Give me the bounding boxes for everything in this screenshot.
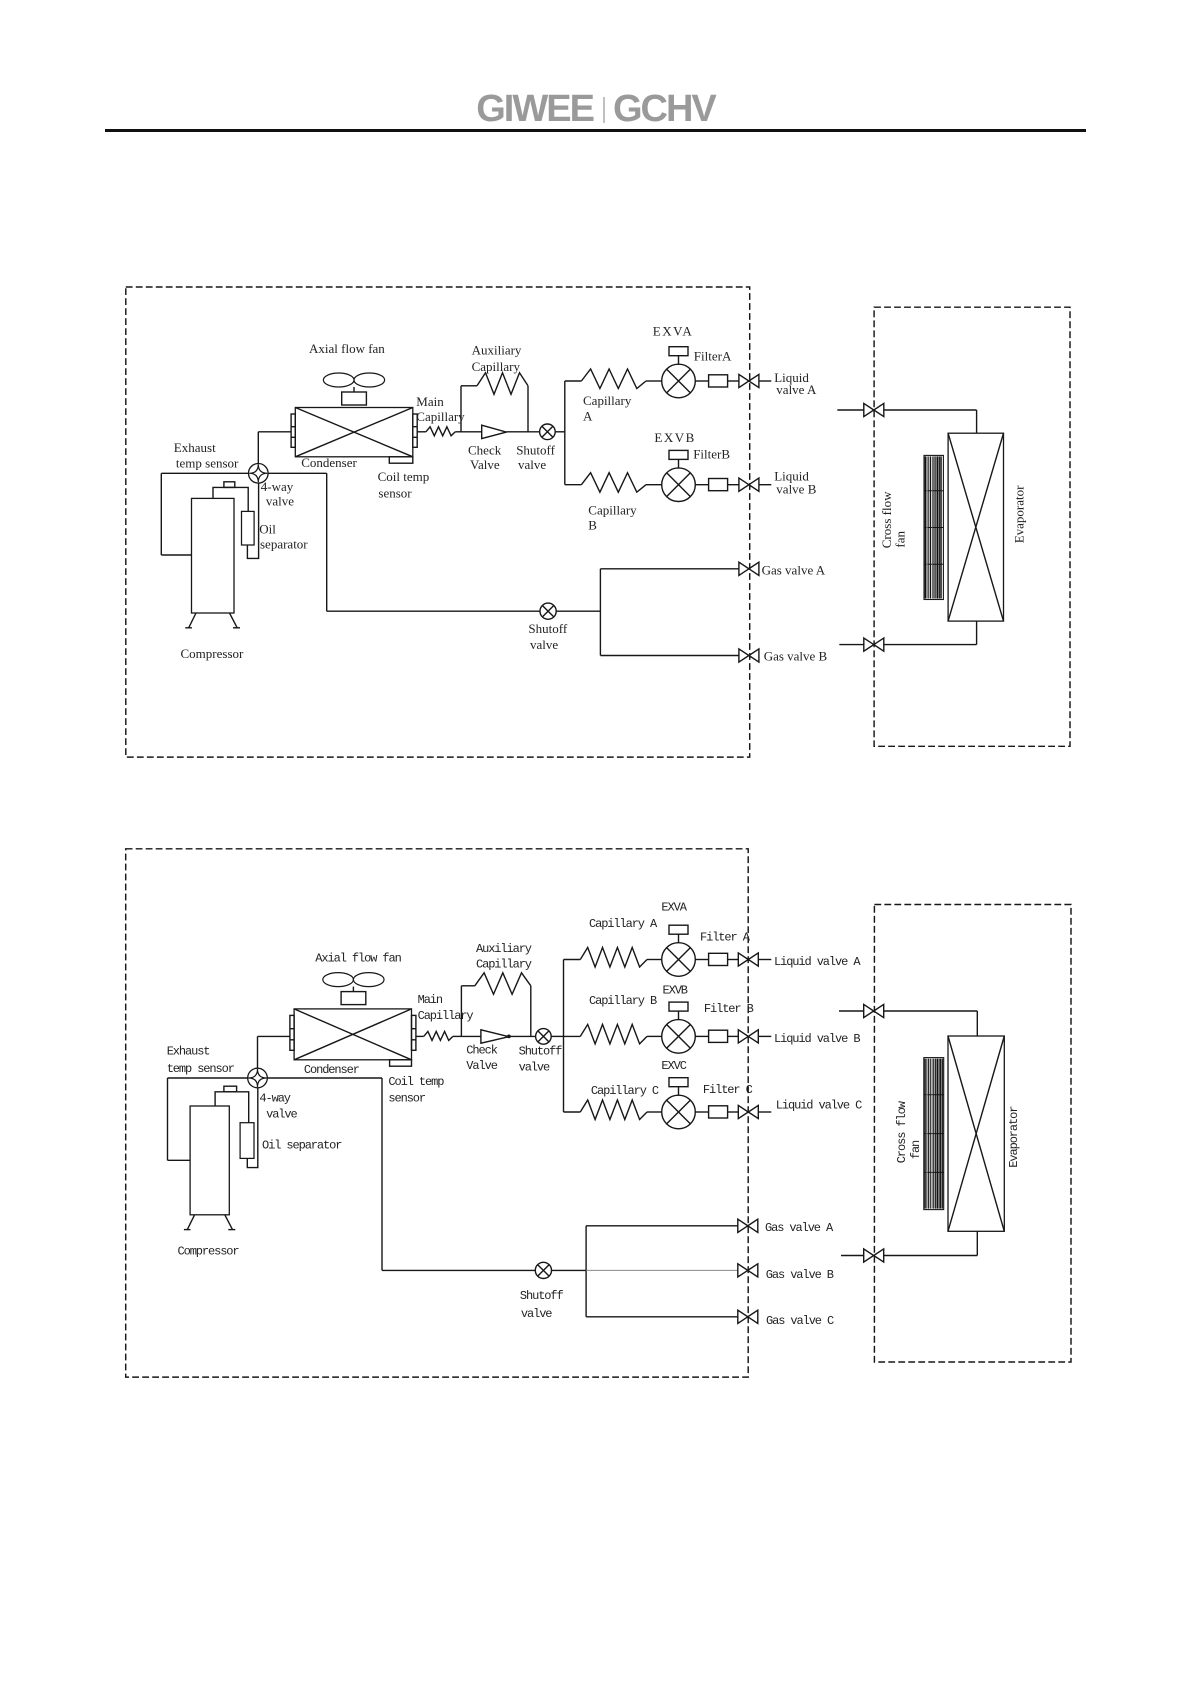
condenser coil bbox=[290, 1009, 416, 1060]
svg-text:Exhaust: Exhaust bbox=[167, 1044, 210, 1058]
wire: shutoff valve to branch point bbox=[555, 431, 565, 433]
label: Gas valve A (system 2) bbox=[765, 1221, 834, 1235]
label: Capillary A (system 2) bbox=[589, 917, 658, 931]
label: Filter B bbox=[693, 446, 730, 461]
label: Shutoff valve (liquid) bbox=[516, 443, 555, 473]
svg-text:fan: fan bbox=[909, 1140, 923, 1159]
capillary A bbox=[580, 948, 661, 968]
svg-text:EXVC: EXVC bbox=[661, 1059, 686, 1073]
svg-text:Capillary: Capillary bbox=[472, 359, 521, 374]
label: Exhaust temp sensor (system 2) bbox=[167, 1044, 235, 1075]
label: Filter A (system 2) bbox=[700, 930, 751, 944]
oil separator return pipe to 4-way valve bbox=[247, 1088, 257, 1168]
label: Exhaust temp sensor bbox=[174, 440, 239, 471]
svg-text:Gas valve A: Gas valve A bbox=[762, 563, 826, 578]
main capillary bbox=[426, 427, 455, 436]
gas branch manifold vertical bbox=[599, 569, 601, 656]
wire: 4-way valve to condenser inlet bbox=[258, 432, 291, 464]
svg-text:Capillary B: Capillary B bbox=[589, 994, 657, 1008]
label: Filter A bbox=[694, 349, 732, 364]
label: Liquid valve A (system 2) bbox=[774, 955, 861, 969]
label: Compressor (system 2) bbox=[178, 1245, 240, 1259]
compressor shell bbox=[185, 498, 240, 627]
svg-text:temp sensor: temp sensor bbox=[167, 1062, 235, 1076]
main capillary bbox=[424, 1031, 453, 1040]
svg-text:A: A bbox=[583, 409, 593, 424]
outdoor unit dashed enclosure (system 1) bbox=[126, 287, 750, 757]
svg-text:Capillary A: Capillary A bbox=[589, 917, 658, 931]
label: Coil temp sensor (system 2) bbox=[388, 1075, 444, 1105]
indoor liquid pipe (left stub) bbox=[839, 1010, 864, 1012]
filter A bbox=[709, 953, 728, 965]
svg-text:valve: valve bbox=[530, 637, 558, 652]
svg-text:4-way: 4-way bbox=[261, 479, 294, 494]
svg-text:EXVA: EXVA bbox=[653, 324, 693, 339]
filter B bbox=[709, 479, 728, 491]
indoor liquid pipe to evaporator bbox=[884, 1011, 978, 1036]
wire: check valve to shutoff valve bbox=[506, 431, 539, 433]
shutoff valve (gas line) bbox=[540, 603, 556, 619]
svg-text:temp sensor: temp sensor bbox=[176, 456, 239, 471]
label: Condenser (system 2) bbox=[304, 1063, 360, 1077]
svg-text:Capillary: Capillary bbox=[476, 958, 532, 972]
svg-text:Cross flow: Cross flow bbox=[895, 1100, 909, 1163]
label: Evaporator (vertical) bbox=[1012, 485, 1027, 543]
wire: branch to capillary C bbox=[564, 1111, 581, 1113]
header rule bbox=[105, 129, 1086, 132]
svg-text:EXVB: EXVB bbox=[654, 430, 695, 445]
wire: EXVA to filter A bbox=[695, 380, 708, 382]
liquid valve A bbox=[739, 374, 759, 387]
label: Axial flow fan bbox=[309, 341, 385, 356]
svg-text:valve B: valve B bbox=[776, 481, 816, 496]
outdoor unit dashed enclosure (system 2) bbox=[126, 849, 749, 1377]
svg-text:valve: valve bbox=[266, 494, 294, 509]
label: Compressor bbox=[181, 646, 245, 661]
svg-text:Capillary: Capillary bbox=[583, 393, 632, 408]
svg-text:valve: valve bbox=[518, 457, 546, 472]
gas valve C bbox=[738, 1310, 758, 1323]
svg-text:Shutoff: Shutoff bbox=[516, 443, 555, 458]
svg-text:Evaporator: Evaporator bbox=[1007, 1106, 1021, 1168]
label: Capillary A bbox=[583, 393, 632, 424]
label: Capillary C (system 2) bbox=[591, 1084, 659, 1098]
shutoff valve (gas line) bbox=[535, 1262, 551, 1278]
wire: suction line from 4-way valve to compressor (left loop) bbox=[161, 473, 248, 555]
wire: filter B to liquid valve B bbox=[728, 1035, 739, 1037]
svg-text:Shutoff: Shutoff bbox=[528, 621, 567, 636]
svg-text:sensor: sensor bbox=[378, 486, 412, 501]
liquid valve B bbox=[739, 478, 759, 491]
label: Axial flow fan (system 2) bbox=[315, 952, 401, 966]
wire: branch to capillary B bbox=[565, 484, 582, 486]
wire: liquid valve B stub bbox=[759, 484, 771, 486]
wire: condenser outlet to main capillary bbox=[417, 431, 426, 433]
shutoff valve (liquid line) bbox=[540, 424, 556, 440]
label: Gas valve B bbox=[764, 649, 828, 664]
label: Main Capillary bbox=[416, 394, 465, 424]
liquid branch manifold vertical bbox=[564, 381, 566, 485]
wire: main capillary to check valve bbox=[453, 1035, 481, 1037]
label: Liquid valve C (system 2) bbox=[776, 1099, 862, 1113]
svg-text:Check: Check bbox=[466, 1043, 497, 1057]
label: Oil separator (system 2) bbox=[262, 1139, 342, 1153]
wire: filter B to liquid valve B bbox=[728, 484, 739, 486]
wire: branch to capillary A bbox=[565, 380, 582, 382]
label: EXVB bbox=[654, 430, 695, 445]
svg-text:Capillary: Capillary bbox=[588, 503, 637, 518]
check valve bbox=[481, 1030, 511, 1043]
label: Capillary B bbox=[588, 503, 637, 533]
wire: liquid valve C stub bbox=[758, 1111, 771, 1113]
electronic expansion valve EXVB bbox=[662, 450, 696, 501]
axial flow fan bbox=[323, 973, 384, 1005]
label: Shutoff valve (gas, system 2) bbox=[520, 1289, 564, 1321]
label: Filter B (system 2) bbox=[704, 1002, 754, 1016]
shutoff valve (liquid line) bbox=[536, 1029, 552, 1045]
svg-text:Coil temp: Coil temp bbox=[378, 469, 430, 484]
filter A bbox=[709, 375, 728, 387]
filter C bbox=[709, 1106, 728, 1118]
label: Auxiliary Capillary bbox=[472, 342, 522, 374]
wire: gas shutoff valve to gas branch point bbox=[552, 1269, 587, 1271]
indoor gas pipe from evaporator bbox=[884, 1231, 978, 1255]
wire: gas branch line C bbox=[586, 1316, 738, 1318]
auxiliary capillary bypass loop bbox=[461, 373, 528, 432]
axial flow fan bbox=[323, 373, 384, 405]
capillary A bbox=[581, 369, 661, 389]
indoor gas pipe (left stub) bbox=[841, 1255, 864, 1257]
wire: filter A to liquid valve A bbox=[728, 959, 739, 961]
label: Gas valve C (system 2) bbox=[766, 1314, 834, 1328]
svg-text:FilterA: FilterA bbox=[694, 349, 732, 364]
gas branch manifold vertical bbox=[585, 1226, 587, 1317]
liquid valve C bbox=[738, 1105, 758, 1118]
wire: gas branch line A bbox=[586, 1225, 738, 1227]
wire: main capillary to check valve bbox=[455, 431, 481, 433]
indoor gas line valve bbox=[864, 1249, 884, 1262]
svg-text:Shutoff: Shutoff bbox=[520, 1289, 564, 1303]
liquid valve B bbox=[738, 1030, 758, 1043]
svg-text:Condenser: Condenser bbox=[301, 455, 357, 470]
svg-text:Main: Main bbox=[416, 394, 444, 409]
wire: EXVB to filter B bbox=[695, 1035, 708, 1037]
wire: gas line to shutoff valve bbox=[327, 610, 540, 612]
svg-text:valve: valve bbox=[266, 1108, 297, 1122]
svg-text:Check: Check bbox=[468, 443, 502, 458]
oil separator bbox=[242, 511, 255, 545]
svg-text:Valve: Valve bbox=[470, 457, 500, 472]
gas valve B bbox=[739, 649, 759, 662]
svg-text:Auxiliary: Auxiliary bbox=[472, 342, 522, 357]
label: Liquid valve A bbox=[774, 370, 817, 397]
label: Liquid valve B (system 2) bbox=[774, 1032, 860, 1046]
svg-text:Liquid valve B: Liquid valve B bbox=[774, 1032, 860, 1046]
wire: check valve to shutoff valve bbox=[509, 1035, 536, 1037]
svg-text:Axial flow fan: Axial flow fan bbox=[315, 952, 401, 966]
svg-text:valve: valve bbox=[521, 1307, 552, 1321]
wire: branch to capillary B bbox=[564, 1035, 581, 1037]
coil temp sensor tab bbox=[389, 457, 413, 463]
label: Liquid valve B bbox=[774, 468, 817, 496]
svg-text:Filter A: Filter A bbox=[700, 930, 751, 944]
indoor unit dashed enclosure (system 1) bbox=[874, 307, 1070, 746]
label: 4-way valve bbox=[261, 479, 294, 509]
wire: 4-way valve to gas-side shutoff valve (down line) bbox=[267, 1078, 382, 1270]
compressor discharge pipe and port bbox=[215, 1086, 249, 1123]
svg-text:Main: Main bbox=[418, 993, 443, 1007]
wire: suction line from 4-way valve to compressor (left loop) bbox=[168, 1078, 248, 1160]
svg-text:Auxiliary: Auxiliary bbox=[476, 942, 532, 956]
svg-text:Gas valve A: Gas valve A bbox=[765, 1221, 834, 1235]
label: Check Valve (system 2) bbox=[466, 1043, 497, 1073]
label: Condenser bbox=[301, 455, 357, 470]
indoor gas line valve bbox=[864, 638, 884, 651]
svg-text:fan: fan bbox=[892, 531, 907, 548]
label: Filter C (system 2) bbox=[703, 1083, 753, 1097]
svg-text:Coil temp: Coil temp bbox=[388, 1075, 444, 1089]
indoor liquid line valve bbox=[864, 1004, 884, 1017]
svg-text:Axial flow fan: Axial flow fan bbox=[309, 341, 385, 356]
cross flow fan bbox=[924, 1058, 944, 1210]
filter B bbox=[709, 1030, 728, 1042]
gas valve A bbox=[739, 562, 759, 575]
wire: filter A to liquid valve A bbox=[728, 380, 739, 382]
check valve bbox=[482, 425, 507, 438]
indoor liquid pipe (left stub) bbox=[837, 409, 864, 411]
electronic expansion valve EXVB bbox=[662, 1002, 696, 1053]
svg-text:Capillary: Capillary bbox=[416, 409, 465, 424]
liquid valve A bbox=[738, 953, 758, 966]
svg-text:sensor: sensor bbox=[388, 1091, 426, 1105]
liquid branch manifold vertical bbox=[563, 960, 565, 1113]
gas valve A bbox=[738, 1219, 758, 1232]
indoor gas pipe (left stub) bbox=[839, 644, 864, 646]
label: Evaporator (vertical, system 2) bbox=[1007, 1106, 1021, 1168]
svg-text:Gas valve C: Gas valve C bbox=[766, 1314, 834, 1328]
svg-text:EXVA: EXVA bbox=[661, 901, 687, 915]
electronic expansion valve EXVC bbox=[662, 1078, 696, 1129]
electronic expansion valve EXVA bbox=[662, 347, 696, 398]
wire: 4-way valve to gas-side shutoff valve (down line) bbox=[268, 473, 327, 611]
capillary B bbox=[581, 473, 661, 493]
label: Coil temp sensor bbox=[378, 469, 430, 501]
wire: branch to capillary A bbox=[564, 959, 581, 961]
label: Gas valve B (system 2) bbox=[766, 1268, 834, 1282]
svg-text:Compressor: Compressor bbox=[181, 646, 245, 661]
evaporator bbox=[948, 433, 1003, 621]
svg-text:Exhaust: Exhaust bbox=[174, 440, 216, 455]
label: Cross flow fan (vertical, system 2) bbox=[895, 1100, 923, 1163]
svg-text:Condenser: Condenser bbox=[304, 1063, 360, 1077]
label: Oil separator bbox=[259, 522, 308, 552]
oil separator return pipe to 4-way valve bbox=[247, 483, 258, 558]
indoor liquid pipe to evaporator bbox=[884, 410, 977, 433]
indoor unit dashed enclosure (system 2) bbox=[874, 905, 1071, 1363]
svg-text:Shutoff: Shutoff bbox=[519, 1045, 563, 1059]
capillary C bbox=[580, 1100, 661, 1120]
wire: shutoff valve to branch point bbox=[551, 1035, 563, 1037]
svg-text:Compressor: Compressor bbox=[178, 1245, 240, 1259]
label: Cross flow fan (vertical) bbox=[879, 491, 908, 548]
cross flow fan bbox=[924, 455, 943, 599]
4-way valve bbox=[248, 1068, 268, 1088]
label: Capillary B (system 2) bbox=[589, 994, 657, 1008]
svg-text:Oil: Oil bbox=[259, 522, 276, 537]
svg-text:B: B bbox=[588, 518, 597, 533]
label: Shutoff valve (gas) bbox=[528, 621, 567, 652]
electronic expansion valve EXVA bbox=[662, 925, 696, 976]
wire: gas line to shutoff valve bbox=[382, 1269, 535, 1271]
label: EXVA (system 2) bbox=[661, 901, 687, 915]
svg-text:Capillary: Capillary bbox=[418, 1009, 474, 1023]
svg-text:Evaporator: Evaporator bbox=[1012, 485, 1027, 543]
wire: gas branch line B bbox=[600, 655, 739, 657]
wire: filter C to liquid valve C bbox=[728, 1111, 739, 1113]
indoor gas pipe from evaporator bbox=[884, 621, 977, 645]
label: EXVB (system 2) bbox=[663, 984, 688, 998]
label: Check Valve bbox=[468, 443, 502, 473]
wire: gas branch line A bbox=[600, 568, 739, 570]
svg-text:Oil separator: Oil separator bbox=[262, 1139, 342, 1153]
svg-text:Gas valve B: Gas valve B bbox=[764, 649, 828, 664]
auxiliary capillary bypass loop bbox=[461, 973, 530, 1037]
4-way valve bbox=[248, 464, 268, 484]
wire: EXVC to filter C bbox=[695, 1111, 708, 1113]
label: Main Capillary (system 2) bbox=[418, 993, 474, 1023]
wire: 4-way valve to condenser inlet bbox=[258, 1036, 290, 1068]
wire: gas branch line B bbox=[586, 1269, 738, 1271]
oil separator bbox=[240, 1123, 254, 1159]
svg-text:Filter C: Filter C bbox=[703, 1083, 753, 1097]
evaporator bbox=[948, 1036, 1004, 1231]
label: EXVC (system 2) bbox=[661, 1059, 686, 1073]
svg-text:Filter B: Filter B bbox=[704, 1002, 754, 1016]
indoor liquid line valve bbox=[864, 403, 884, 416]
svg-text:Valve: Valve bbox=[466, 1059, 497, 1073]
svg-text:Gas valve B: Gas valve B bbox=[766, 1268, 834, 1282]
logo GIWEE | GCHV bbox=[0, 88, 1191, 131]
condenser coil bbox=[291, 408, 417, 457]
label: EXVA bbox=[653, 324, 693, 339]
svg-text:Capillary C: Capillary C bbox=[591, 1084, 659, 1098]
wire: liquid valve A stub bbox=[758, 959, 771, 961]
label: Auxiliary Capillary (system 2) bbox=[476, 942, 532, 972]
wire: condenser outlet to main capillary bbox=[416, 1035, 424, 1037]
coil temp sensor tab bbox=[390, 1060, 412, 1066]
svg-text:4-way: 4-way bbox=[259, 1091, 290, 1105]
capillary B bbox=[580, 1024, 661, 1044]
svg-text:FilterB: FilterB bbox=[693, 446, 730, 461]
wire: liquid valve B stub bbox=[758, 1035, 771, 1037]
svg-text:separator: separator bbox=[260, 537, 308, 552]
svg-text:Liquid valve A: Liquid valve A bbox=[774, 955, 861, 969]
svg-text:valve A: valve A bbox=[776, 382, 817, 397]
wire: EXVA to filter A bbox=[695, 959, 708, 961]
svg-text:EXVB: EXVB bbox=[663, 984, 688, 998]
svg-text:Liquid valve C: Liquid valve C bbox=[776, 1099, 862, 1113]
wire: EXVB to filter B bbox=[695, 484, 708, 486]
wire: gas shutoff valve to gas branch point bbox=[556, 610, 600, 612]
compressor discharge pipe and port bbox=[213, 482, 248, 512]
label: Shutoff valve (liquid, system 2) bbox=[519, 1045, 563, 1075]
gas valve B bbox=[738, 1264, 758, 1277]
compressor shell bbox=[184, 1106, 235, 1230]
svg-text:valve: valve bbox=[519, 1060, 550, 1074]
label: 4-way valve (system 2) bbox=[259, 1091, 297, 1121]
wire: liquid valve A stub bbox=[759, 380, 771, 382]
label: Gas valve A bbox=[762, 563, 826, 578]
